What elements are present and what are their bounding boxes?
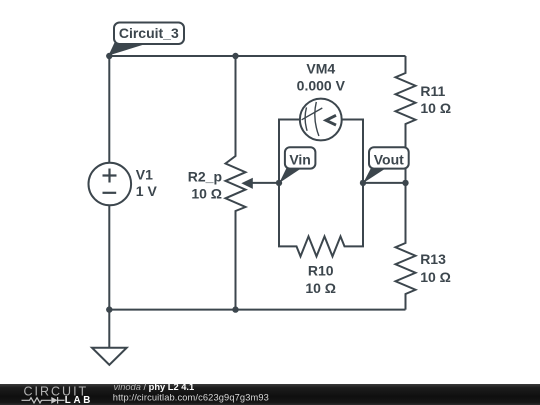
svg-text:vinoda / phy L2 4.1: vinoda / phy L2 4.1: [114, 382, 195, 392]
svg-text:10 Ω: 10 Ω: [191, 186, 222, 202]
svg-text:R10: R10: [308, 262, 334, 278]
svg-text:LAB: LAB: [65, 395, 93, 405]
svg-text:10 Ω: 10 Ω: [420, 269, 451, 285]
svg-text:R11: R11: [420, 83, 445, 99]
svg-text:10 Ω: 10 Ω: [305, 280, 336, 296]
svg-text:V1: V1: [136, 167, 153, 183]
svg-text:1 V: 1 V: [136, 183, 158, 199]
svg-text:Circuit_3: Circuit_3: [119, 25, 179, 41]
svg-text:Vout: Vout: [374, 151, 404, 167]
svg-text:Vin: Vin: [289, 151, 311, 167]
svg-text:http://circuitlab.com/c623g9q7: http://circuitlab.com/c623g9q7g3m93: [113, 392, 269, 402]
svg-text:VM4: VM4: [306, 60, 335, 76]
svg-text:10 Ω: 10 Ω: [420, 100, 451, 116]
svg-text:R13: R13: [420, 251, 446, 267]
svg-text:R2_p: R2_p: [188, 169, 222, 185]
svg-text:0.000 V: 0.000 V: [297, 78, 346, 94]
